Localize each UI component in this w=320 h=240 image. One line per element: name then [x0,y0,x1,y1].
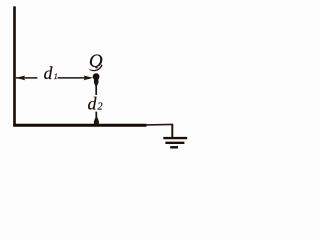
floor conductor (grounded horizontal plane) [13,123,173,127]
svg-text:2: 2 [98,102,103,113]
ground [163,138,187,147]
svg-text:d: d [88,93,98,113]
dimension d2 line [94,79,99,124]
dimension d1 line [16,76,93,81]
label d2 [88,93,103,113]
label d1 [44,63,58,83]
charge Q (point charge node) [93,73,100,80]
wire to ground [171,124,173,138]
label Q [87,51,105,73]
wall conductor (grounded vertical plane) [13,6,16,126]
svg-text:d: d [44,63,53,83]
svg-text:1: 1 [54,72,58,81]
